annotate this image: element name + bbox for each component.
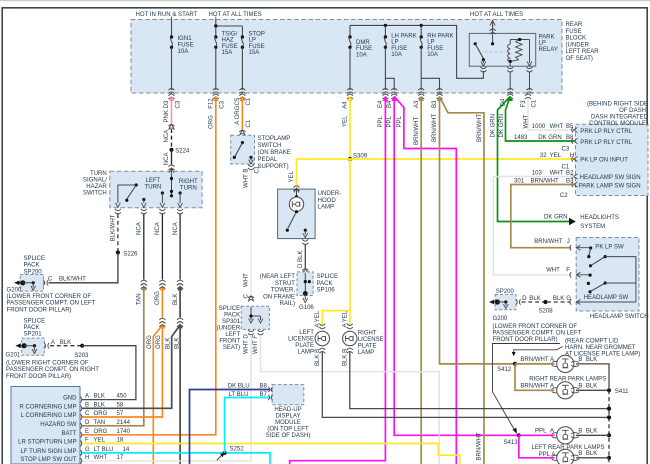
svg-text:BLK: BLK	[166, 338, 172, 349]
underhood lamp bulb and switch	[286, 188, 309, 245]
svg-text:BLK: BLK	[94, 402, 105, 408]
body connector box (left bottom)	[11, 387, 80, 464]
svg-text:BLK/WHT: BLK/WHT	[111, 214, 117, 241]
splice S411	[607, 388, 629, 395]
svg-text:FUSE: FUSE	[391, 46, 407, 52]
TSIG/HAZ fuse	[213, 26, 219, 94]
ground G200	[7, 280, 36, 293]
TSIG/STOP feed bus	[214, 20, 242, 28]
svg-text:OF DASH): OF DASH)	[619, 108, 648, 114]
label LT BLU B7	[229, 392, 268, 398]
svg-text:LAMP: LAMP	[318, 205, 334, 211]
DICM box	[576, 124, 649, 195]
label 1000 WHT B5	[532, 124, 633, 135]
label HOT AT ALL TIMES (left)	[209, 12, 262, 20]
wire BLK G dashed to headlamp switch	[547, 296, 571, 302]
svg-text:BLK: BLK	[586, 384, 597, 390]
svg-text:ORG: ORG	[155, 291, 161, 305]
svg-text:BLK: BLK	[94, 394, 105, 400]
label UNDER-HOOD LAMP	[318, 191, 342, 211]
svg-text:PRK LP RLY CTRL: PRK LP RLY CTRL	[580, 129, 632, 135]
headlamp switch pk lp sw pole	[587, 244, 636, 283]
svg-text:DK GRN: DK GRN	[491, 114, 497, 138]
headlamp switch pin F	[570, 272, 590, 277]
svg-text:CONTROL MODULE): CONTROL MODULE)	[589, 121, 648, 127]
svg-text:(NEAR LEFT: (NEAR LEFT	[260, 274, 296, 280]
svg-text:PK LP ON INPUT: PK LP ON INPUT	[580, 158, 628, 164]
svg-text:B2: B2	[566, 171, 574, 177]
label HEAD-UP DISPLAY MODULE	[266, 407, 311, 439]
label F3 / C1 / WHT	[521, 99, 537, 128]
wire D BLK underhood to SP106	[302, 245, 308, 274]
splice S252	[217, 447, 244, 461]
svg-text:RAIL): RAIL)	[280, 301, 295, 307]
wire DK GRN to headlights system	[498, 94, 570, 222]
svg-text:WHT: WHT	[94, 455, 108, 461]
svg-text:SP301: SP301	[222, 319, 241, 325]
svg-text:D BLK: D BLK	[298, 251, 304, 268]
svg-text:(UNDER: (UNDER	[217, 325, 241, 331]
svg-text:LAMP: LAMP	[358, 350, 374, 356]
label BRN/WHT J	[534, 239, 570, 245]
wire YEL S309 to DICM	[350, 158, 574, 160]
svg-text:C: C	[85, 411, 90, 417]
svg-text:TURN: TURN	[90, 171, 107, 177]
svg-text:BRN/WHT: BRN/WHT	[477, 113, 483, 142]
label BRN/WHT	[477, 113, 483, 142]
svg-text:YEL: YEL	[550, 153, 562, 159]
right rear park lamp 2	[552, 382, 579, 399]
label GND row	[63, 394, 127, 402]
svg-text:G: G	[566, 296, 571, 302]
wire PPL E4	[290, 94, 389, 464]
svg-text:2144: 2144	[117, 420, 131, 426]
splice S226	[116, 250, 138, 257]
wire BLK lamp1 to S411	[576, 357, 609, 388]
svg-text:B8: B8	[566, 135, 574, 141]
svg-text:SIDE OF DASH): SIDE OF DASH)	[266, 433, 311, 439]
svg-text:NCA: NCA	[164, 151, 170, 165]
svg-text:ORG: ORG	[147, 335, 153, 349]
svg-text:PARK LAMP SW SIGN: PARK LAMP SW SIGN	[579, 183, 641, 189]
wire YEL S309 to underhood lamp	[294, 159, 351, 191]
SP201 pin A connector	[44, 343, 49, 349]
svg-text:B8: B8	[260, 384, 268, 390]
label STOP LP FUSE 15A	[249, 31, 265, 56]
svg-text:B3: B3	[566, 179, 574, 185]
svg-text:WHT: WHT	[244, 273, 250, 287]
svg-text:LEFT: LEFT	[146, 178, 161, 184]
DICM pin connectors	[572, 127, 578, 187]
svg-text:(ON TOP LEFT: (ON TOP LEFT	[267, 427, 309, 433]
headlamp switch pin J	[570, 245, 591, 250]
label WHT D	[244, 334, 250, 354]
wire WHT relay to DICM B5	[525, 94, 574, 130]
label WHT F	[546, 268, 570, 274]
svg-text:DK GRN: DK GRN	[538, 135, 562, 141]
label TURN SIGNAL/HAZAR SWITCH	[83, 171, 108, 197]
svg-text:58: 58	[117, 402, 124, 408]
svg-text:J: J	[567, 239, 570, 245]
label 32 YEL H	[540, 153, 628, 163]
label BLK B (right license)	[343, 349, 349, 366]
label NCA	[164, 129, 170, 143]
label A YEL (right license)	[343, 310, 349, 327]
svg-text:B: B	[578, 357, 582, 363]
svg-text:LICENSE: LICENSE	[288, 337, 314, 343]
callout leader to S412 wire	[512, 347, 563, 357]
svg-text:S208: S208	[539, 308, 554, 314]
head-up display module box	[272, 385, 304, 405]
svg-text:LAMP: LAMP	[298, 350, 314, 356]
label REAR COMPT LID HARN	[565, 338, 640, 357]
svg-text:(LOWER FRONT CORNER OF: (LOWER FRONT CORNER OF	[493, 324, 578, 330]
wire WHT stoplamp to SP301	[248, 170, 254, 301]
svg-text:PRK LP RLY CTRL: PRK LP RLY CTRL	[580, 140, 632, 146]
splice pack SP106	[297, 272, 313, 296]
svg-text:YEL: YEL	[289, 170, 295, 182]
label C1 / WHT B (stoplamp output)	[244, 165, 261, 188]
svg-text:G201: G201	[6, 352, 21, 358]
wire DK BLU to HUD B8	[190, 390, 271, 464]
body connector pin rows	[81, 397, 82, 464]
svg-text:PACK: PACK	[317, 281, 333, 287]
svg-text:S252: S252	[230, 447, 245, 453]
svg-text:FUSE: FUSE	[566, 29, 582, 35]
wire NCA S224 to turn switch	[169, 150, 175, 176]
svg-text:RIGHT: RIGHT	[179, 179, 198, 185]
svg-text:SPLICE: SPLICE	[317, 274, 339, 280]
wire NCA dashed to S224	[171, 129, 173, 150]
svg-text:PK LP SW: PK LP SW	[595, 244, 624, 250]
svg-text:LR STOP/TURN LMP: LR STOP/TURN LMP	[18, 440, 76, 446]
svg-text:HEADLAMP SWITCH: HEADLAMP SWITCH	[590, 314, 649, 320]
svg-text:S412: S412	[497, 367, 512, 373]
svg-text:S411: S411	[615, 389, 629, 395]
label C1	[562, 164, 570, 170]
wire PPL S413 to left rear lamp 1	[519, 429, 555, 436]
svg-text:BRN/WHT: BRN/WHT	[531, 179, 560, 185]
turn switch exit 3 contact	[160, 191, 165, 207]
svg-text:TAN: TAN	[137, 293, 143, 305]
svg-text:RIGHT: RIGHT	[358, 331, 377, 337]
label D BLK	[298, 251, 304, 268]
wire BRN/WHT B3 to S412	[437, 94, 514, 364]
label HOT IN RUN & START	[136, 12, 198, 20]
stoplamp switch contacts	[233, 141, 254, 170]
svg-text:WHT F: WHT F	[253, 335, 259, 354]
splice S203	[74, 344, 89, 359]
svg-text:F: F	[85, 438, 89, 444]
svg-text:LT BLU: LT BLU	[94, 447, 114, 453]
wire PNK from IGN1 fuse	[169, 94, 175, 130]
svg-text:SYSTEM: SYSTEM	[580, 224, 605, 230]
svg-text:PLATE: PLATE	[358, 344, 377, 350]
svg-text:HAZ: HAZ	[222, 38, 234, 44]
svg-text:BLK: BLK	[529, 296, 540, 302]
label PPL	[397, 115, 403, 127]
wire BLK S203 to GND row	[82, 346, 136, 400]
svg-text:HEADLIGHTS: HEADLIGHTS	[580, 215, 619, 221]
svg-text:E4: E4	[378, 100, 384, 108]
svg-text:14: 14	[123, 447, 130, 453]
splice S413	[504, 433, 521, 446]
svg-text:DK BLU: DK BLU	[228, 384, 250, 390]
label IGN1 FUSE 10A	[178, 36, 194, 55]
wire BLK B right license lamp	[350, 351, 608, 409]
park lp relay box	[469, 33, 535, 66]
turn signal / hazard switch box	[110, 171, 202, 208]
svg-text:PACK: PACK	[24, 263, 40, 269]
svg-text:PACK: PACK	[224, 312, 240, 318]
svg-text:HEADLAMP SW SIGN: HEADLAMP SW SIGN	[580, 175, 641, 181]
wire BLK dashed ground bus	[607, 390, 611, 464]
svg-text:PASSENGER COMPT. ON RIGHT: PASSENGER COMPT. ON RIGHT	[6, 367, 99, 373]
svg-text:PPL: PPL	[387, 115, 393, 127]
svg-text:B: B	[578, 451, 582, 457]
svg-text:10A: 10A	[356, 52, 368, 58]
label A4 / YEL	[343, 101, 349, 127]
svg-text:WHT: WHT	[546, 268, 560, 274]
svg-text:G: G	[85, 447, 90, 453]
svg-text:TOWER,: TOWER,	[271, 288, 295, 294]
svg-text:1000: 1000	[532, 124, 546, 130]
svg-text:L CORNERING LMP: L CORNERING LMP	[21, 413, 77, 419]
label 301 BRN/WHT B3	[514, 179, 641, 190]
svg-text:BLK: BLK	[175, 338, 181, 349]
svg-text:G200: G200	[493, 316, 508, 322]
label SPLICE PACK SP301 (UNDER LEFT FRONT SEAT)	[217, 306, 241, 351]
label R CORNERING LMP row	[19, 402, 123, 410]
callout leader to S413 wire	[493, 344, 561, 434]
right rear park lamp 1	[552, 355, 579, 372]
svg-text:(LOWER FRONT CORNER OF: (LOWER FRONT CORNER OF	[7, 294, 92, 300]
svg-text:LF TURN SIGN LMP: LF TURN SIGN LMP	[21, 449, 77, 455]
svg-text:LP: LP	[539, 41, 546, 47]
svg-text:BLK: BLK	[173, 294, 179, 305]
svg-text:LEFT: LEFT	[225, 332, 240, 338]
svg-text:S203: S203	[74, 353, 89, 359]
svg-text:NCA: NCA	[164, 129, 170, 143]
ground G200 (right)	[489, 299, 508, 322]
svg-text:LH PARK: LH PARK	[391, 33, 416, 39]
svg-text:HEADLAMP SW: HEADLAMP SW	[584, 295, 629, 301]
svg-text:103: 103	[532, 171, 543, 177]
svg-text:C3: C3	[175, 100, 181, 108]
label B4 / PPL	[387, 100, 393, 128]
label LF TURN SIGN LMP row	[21, 447, 130, 455]
svg-text:RH PARK: RH PARK	[427, 33, 453, 39]
svg-text:SUPPORT): SUPPORT)	[258, 164, 289, 170]
wire A BLK dashed to S203	[50, 340, 82, 346]
label NCA	[164, 151, 170, 165]
svg-text:G106: G106	[299, 305, 314, 311]
wire LT BLU LF TURN to S252	[82, 453, 270, 464]
svg-text:A4: A4	[343, 101, 349, 109]
svg-text:FUSE: FUSE	[427, 46, 443, 52]
wire PPL B4 to S413	[391, 94, 517, 435]
svg-text:PPL: PPL	[535, 429, 547, 435]
label RIGHT LICENSE PLATE LAMP	[358, 331, 384, 357]
splice pack SP200 (right)	[495, 289, 516, 310]
svg-text:FRONT DOOR PILLAR): FRONT DOOR PILLAR)	[6, 374, 71, 380]
splice S224	[169, 148, 190, 155]
label HOT AT ALL TIMES (right)	[470, 12, 523, 18]
svg-text:LP: LP	[249, 38, 256, 44]
svg-text:F3: F3	[521, 100, 527, 108]
svg-text:PPL: PPL	[397, 115, 403, 127]
label L CORNERING LMP row	[21, 411, 124, 419]
label A3 / BRN/WHT	[414, 100, 420, 145]
left rear park lamp 2	[552, 449, 579, 464]
svg-text:450: 450	[117, 394, 128, 400]
label HAZARD SW row	[40, 420, 130, 428]
svg-text:FRONT DOOR PILLAR): FRONT DOOR PILLAR)	[493, 337, 558, 343]
label NCA / TAN	[137, 221, 143, 305]
svg-text:57: 57	[117, 411, 124, 417]
svg-text:BLK/WHT: BLK/WHT	[59, 276, 86, 282]
label C BLK/WHT	[48, 276, 86, 282]
svg-text:C5: C5	[235, 97, 241, 105]
label E4 / PPL	[378, 100, 384, 128]
label TSIG/HAZ FUSE 15A	[222, 31, 238, 56]
label LEFT REAR PARK LAMPS	[532, 445, 605, 451]
svg-text:HAZAR: HAZAR	[86, 184, 107, 190]
svg-text:GND: GND	[63, 396, 77, 402]
label SPLICE PACK SP106	[317, 274, 339, 293]
wire BRN/WHT S412 to right rear lamp 2	[515, 364, 555, 390]
svg-text:C: C	[244, 294, 250, 299]
wire BRN/WHT 301 DICM B3 to headlamp switch J	[511, 185, 574, 248]
svg-text:FRONT DOOR PILLAR): FRONT DOOR PILLAR)	[7, 307, 72, 313]
svg-text:LP: LP	[427, 40, 434, 46]
label B3 / BRN/WHT	[432, 100, 438, 142]
svg-text:S226: S226	[123, 251, 138, 257]
svg-text:B4: B4	[387, 100, 393, 108]
wire YEL LR STOP/TURN	[82, 444, 460, 464]
svg-text:HOT IN RUN & START: HOT IN RUN & START	[136, 12, 198, 18]
svg-text:SWITCH: SWITCH	[83, 190, 107, 196]
svg-text:10A: 10A	[427, 52, 439, 58]
svg-text:BRN/WHT: BRN/WHT	[432, 113, 438, 142]
label STOPLAMP SWITCH (ON BRAKE PEDAL SUPPORT)	[258, 136, 291, 170]
svg-text:1740: 1740	[117, 429, 131, 435]
splice pack SP301	[241, 306, 269, 335]
svg-text:32: 32	[540, 153, 547, 159]
svg-text:HEAD-UP: HEAD-UP	[274, 407, 301, 413]
label WHT F	[253, 335, 259, 354]
label A YEL (left license)	[315, 310, 321, 327]
svg-text:SPLICE: SPLICE	[24, 256, 46, 262]
svg-text:LT BLU: LT BLU	[229, 392, 249, 398]
svg-text:PLATE: PLATE	[295, 343, 314, 349]
turn switch exit connectors	[115, 209, 183, 214]
svg-text:R CORNERING LMP: R CORNERING LMP	[19, 404, 76, 410]
svg-text:UNDER-: UNDER-	[318, 191, 342, 197]
label LH PARK LP FUSE 10A	[391, 33, 416, 58]
wire BLK lamp3 to ground bus	[576, 429, 609, 436]
right license plate lamp	[343, 324, 357, 354]
headlamp switch headlamp sw pole	[584, 274, 636, 301]
svg-text:BLK: BLK	[60, 340, 71, 346]
svg-text:15A: 15A	[249, 50, 261, 56]
svg-text:TSIG/: TSIG/	[222, 31, 238, 37]
svg-text:C2: C2	[560, 193, 568, 199]
label BATT row	[61, 429, 130, 437]
wire BLK/WHT S226 to SP200	[49, 253, 118, 283]
svg-text:DASH INTEGRATED: DASH INTEGRATED	[591, 115, 649, 121]
wire WHT 103 to headlamp switch F	[493, 177, 573, 275]
svg-text:WHT: WHT	[550, 124, 564, 130]
label BLK B (left license)	[315, 349, 321, 366]
wire BLK lamp2 to S411	[576, 384, 609, 391]
svg-text:(LOWER RIGHT CORNER OF: (LOWER RIGHT CORNER OF	[6, 360, 89, 366]
wire ORG from TSIG fuse to BATT row	[82, 94, 219, 435]
label BLK/WHT	[111, 214, 117, 241]
svg-text:TURN: TURN	[145, 184, 162, 190]
label DMR FUSE 10A	[356, 40, 372, 58]
svg-text:BLK: BLK	[586, 429, 597, 435]
svg-text:ORG: ORG	[209, 115, 215, 129]
svg-text:ORG: ORG	[94, 429, 108, 435]
LH PARK LP fuse	[382, 25, 397, 93]
splice pack SP201	[22, 318, 45, 355]
label YEL	[289, 170, 295, 182]
underhood lamp box	[278, 189, 316, 239]
fuse block box (hot bus box)	[131, 20, 562, 94]
svg-text:HARN. NEAR GROMMET: HARN. NEAR GROMMET	[565, 345, 636, 351]
svg-text:SP106: SP106	[317, 288, 336, 294]
svg-text:FUSE: FUSE	[356, 46, 372, 52]
DMR fuse	[347, 25, 353, 93]
svg-text:FUSE: FUSE	[222, 44, 238, 50]
label NCA / BLK / BLK BLK	[166, 221, 181, 349]
svg-text:STOPLAMP: STOPLAMP	[258, 136, 291, 142]
label RH PARK LP FUSE 10A	[427, 33, 453, 58]
splice pack SP200	[20, 256, 45, 291]
relay hot feed pin	[490, 21, 496, 35]
svg-text:DISPLAY: DISPLAY	[275, 414, 300, 420]
svg-text:PACK: PACK	[24, 325, 40, 331]
label C3	[562, 146, 570, 152]
svg-text:BLK: BLK	[586, 451, 597, 457]
svg-text:BRN/WHT: BRN/WHT	[520, 357, 549, 363]
RH PARK LP fuse	[418, 25, 442, 93]
svg-text:B3: B3	[432, 100, 438, 108]
svg-text:B: B	[85, 402, 89, 408]
svg-text:FUSE: FUSE	[178, 43, 194, 49]
svg-text:NCA: NCA	[137, 221, 143, 235]
svg-text:(REAR COMPT LID: (REAR COMPT LID	[565, 338, 619, 344]
svg-text:10A: 10A	[178, 49, 190, 55]
svg-text:(BEHIND RIGHT SIDE: (BEHIND RIGHT SIDE	[587, 102, 648, 108]
wire DK GRN to DICM B8	[506, 97, 574, 142]
wire YEL S309 down to license lamps	[322, 159, 350, 326]
svg-text:18: 18	[117, 438, 124, 444]
svg-text:NCA: NCA	[155, 221, 161, 235]
wire WHT SP301 D to STOP LMP SW OUT row	[82, 335, 251, 461]
turn switch exit 4 contact	[178, 191, 183, 207]
label HEADLAMP SWITCH	[590, 314, 649, 320]
wire YEL from DMR fuse	[347, 94, 353, 159]
turn switch common contacts	[170, 176, 173, 197]
label DK GRN	[499, 114, 505, 138]
svg-text:C3: C3	[562, 146, 570, 152]
label F12 / C3 / ORG	[209, 98, 226, 129]
svg-text:D4: D4	[501, 98, 507, 106]
svg-text:SEAT): SEAT)	[223, 345, 240, 351]
wire ORG turn switch down	[82, 214, 165, 464]
